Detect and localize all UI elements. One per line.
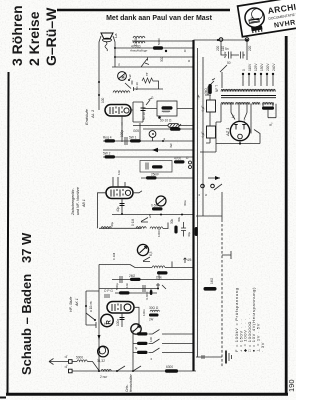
bus node dots bbox=[192, 47, 194, 49]
switch contacts pair bbox=[201, 184, 205, 188]
wire y216 to linkage bbox=[196, 215, 222, 217]
wire y214 row bbox=[112, 214, 193, 216]
svg-text:a: a bbox=[197, 194, 201, 196]
vertical wire x122 bbox=[121, 122, 123, 142]
svg-text:30w: 30w bbox=[183, 200, 187, 206]
svg-text:und NF- Vorröhre: und NF- Vorröhre bbox=[76, 187, 80, 215]
mains terminal 2 bbox=[245, 38, 249, 42]
resistor top mid bbox=[170, 128, 181, 131]
svg-text:AK 1: AK 1 bbox=[75, 298, 79, 307]
svg-text:Met dank aan Paul van der Mast: Met dank aan Paul van der Mast bbox=[106, 15, 212, 22]
svg-text:5000: 5000 bbox=[157, 38, 161, 45]
node dots on speaker wires bbox=[98, 81, 100, 83]
wire row y157 bbox=[103, 156, 193, 158]
mains terminal 1 bbox=[219, 38, 223, 42]
svg-text:100n: 100n bbox=[116, 319, 120, 326]
resistor 5W3 bbox=[105, 155, 116, 158]
antenna coil bbox=[72, 361, 77, 363]
svg-text:50: 50 bbox=[227, 61, 231, 65]
svg-text:240V: 240V bbox=[272, 63, 276, 71]
svg-text:30Ω Ω: 30Ω Ω bbox=[149, 306, 159, 310]
block cap 1 bbox=[207, 100, 216, 112]
heater resistor bbox=[262, 107, 274, 110]
grid resistor box bbox=[157, 101, 177, 116]
wave switch coil bbox=[101, 369, 111, 371]
svg-text:100n: 100n bbox=[142, 309, 146, 316]
svg-text:2 nur: 2 nur bbox=[100, 375, 108, 379]
svg-text:AL 1: AL 1 bbox=[90, 110, 95, 119]
wire row y150 bbox=[103, 149, 193, 151]
archief stamp bbox=[238, 0, 320, 37]
cathode resistor under AK1 bbox=[121, 313, 123, 327]
svg-text:AZ 1: AZ 1 bbox=[225, 128, 230, 137]
svg-text:100: 100 bbox=[149, 337, 153, 342]
svg-text:125V: 125V bbox=[254, 63, 258, 71]
resistor 6300 bottom bbox=[165, 369, 178, 372]
resistor 30k vertical bbox=[174, 226, 177, 234]
resistor 4700 right bbox=[174, 160, 185, 163]
svg-text:100kΩ: 100kΩ bbox=[157, 270, 161, 280]
svg-text:⊣⊢: ⊣⊢ bbox=[197, 94, 201, 100]
switch loop 1 bbox=[141, 218, 148, 223]
outlined resistor on y125.5 bbox=[168, 124, 179, 128]
svg-text:6300: 6300 bbox=[166, 365, 173, 369]
svg-text:4 μF: 4 μF bbox=[201, 132, 205, 138]
svg-text:1M2: 1M2 bbox=[210, 278, 214, 284]
svg-text:40μ: 40μ bbox=[116, 206, 120, 212]
coil 2 on y228 bbox=[136, 227, 146, 229]
HF block left frame bbox=[86, 291, 99, 328]
bus parallel thin 2 bbox=[202, 57, 204, 216]
svg-text:25mF: 25mF bbox=[151, 173, 159, 177]
wire y89 bbox=[133, 88, 163, 90]
svg-text:a: a bbox=[162, 138, 166, 140]
wire speaker right down bbox=[113, 36, 115, 67]
svg-text:G05: G05 bbox=[133, 129, 139, 133]
band row 1 bbox=[133, 330, 193, 335]
bus parallel thin bbox=[197, 48, 199, 357]
misc small labels bbox=[104, 38, 246, 360]
grid cap circle bbox=[152, 138, 154, 142]
svg-text:190: 190 bbox=[287, 379, 296, 392]
svg-text:40μ: 40μ bbox=[110, 222, 114, 227]
svg-text:30k: 30k bbox=[170, 218, 174, 224]
earth bar bbox=[225, 351, 227, 364]
main bus thick bbox=[192, 40, 194, 371]
svg-text:10n: 10n bbox=[117, 170, 121, 175]
svg-text:220: 220 bbox=[248, 45, 252, 51]
mains switch top bbox=[220, 65, 227, 88]
band rows vertical bbox=[132, 330, 134, 371]
border frame left bbox=[8, 72, 9, 395]
coil 100k row y268 bbox=[99, 264, 130, 266]
wire rail y41 bbox=[132, 40, 193, 42]
svg-text:220V: 220V bbox=[266, 63, 270, 71]
resistor 5W2 bbox=[130, 139, 141, 142]
coil 10000 bbox=[150, 227, 163, 229]
output transformer coil top bbox=[131, 36, 145, 48]
wave switch contacts bbox=[117, 366, 141, 371]
svg-text:5000: 5000 bbox=[76, 356, 83, 360]
resistor 2M2 bbox=[130, 278, 141, 281]
voltage taps bbox=[242, 63, 276, 86]
feedback box bbox=[140, 161, 172, 173]
svg-text:5W 1: 5W 1 bbox=[129, 136, 137, 140]
svg-text:fernschalter: fernschalter bbox=[129, 373, 133, 392]
svg-text:4/5: 4/5 bbox=[187, 258, 192, 262]
secondary winding 3 bbox=[252, 102, 260, 104]
arrow mark on x99 bbox=[98, 335, 101, 340]
coil under K bbox=[113, 91, 130, 93]
border frame right bbox=[285, 36, 288, 394]
pot series resistor bbox=[152, 207, 163, 210]
tone switch bbox=[125, 81, 134, 92]
svg-text:110V: 110V bbox=[248, 63, 252, 71]
svg-text:5W 2: 5W 2 bbox=[103, 152, 111, 156]
svg-text:4W: 4W bbox=[169, 143, 173, 148]
sym 4/5 bbox=[184, 258, 187, 263]
svg-text:30k: 30k bbox=[177, 217, 181, 222]
AZ1 surround wires bbox=[216, 113, 260, 144]
svg-text:a: a bbox=[205, 193, 207, 197]
svg-text:k₁: k₁ bbox=[242, 119, 246, 122]
wire to bus from zigzag bbox=[157, 81, 159, 89]
svg-text:31,32: 31,32 bbox=[97, 359, 105, 363]
tube AK1 right lead bbox=[134, 307, 139, 327]
svg-text:a: a bbox=[149, 358, 153, 360]
wire rail y57 bbox=[115, 56, 193, 58]
ballast S circle bbox=[97, 346, 108, 363]
svg-text:50·10: 50·10 bbox=[135, 82, 139, 90]
reg tube R bbox=[101, 314, 113, 326]
tube AB1 left lead bbox=[98, 193, 107, 229]
tube AL1 bbox=[105, 105, 131, 117]
switch loop 2 bbox=[143, 257, 150, 262]
wire speaker left down to AL1 bbox=[99, 36, 101, 110]
svg-text:Endstufe: Endstufe bbox=[84, 108, 89, 125]
svg-text:302: 302 bbox=[160, 56, 164, 62]
rectifier AZ1 bbox=[225, 121, 250, 140]
resistor on y48 rail bbox=[153, 46, 163, 49]
stack resistor A bbox=[146, 176, 157, 179]
antenna terminal A2 bbox=[69, 369, 73, 373]
potentiometer K bbox=[118, 72, 130, 81]
svg-text:NF T: NF T bbox=[215, 85, 219, 92]
box leads bbox=[143, 108, 193, 110]
cathode cap 40u bbox=[121, 199, 123, 215]
wire row y141 bbox=[103, 140, 193, 142]
antenna terminal A1 bbox=[69, 360, 73, 364]
row y288 bbox=[99, 288, 159, 290]
svg-text:2 Kreise: 2 Kreise bbox=[26, 11, 42, 66]
vertical x99 lower bbox=[98, 265, 100, 373]
pot circle with slash bbox=[156, 196, 166, 206]
svg-text:6,3: 6,3 bbox=[149, 251, 153, 256]
resistor 1k under bbox=[157, 271, 168, 274]
secondary winding 2 bbox=[236, 102, 250, 104]
HF block switch bbox=[86, 313, 95, 320]
switch D between rails bbox=[141, 58, 149, 68]
svg-text:1W: 1W bbox=[128, 74, 132, 79]
wire AL1 anode down bbox=[121, 116, 123, 126]
wire rail y48 bbox=[115, 47, 193, 49]
arrow on y150 bbox=[152, 148, 158, 152]
svg-text:100p: 100p bbox=[120, 130, 124, 137]
border frame bottom bbox=[6, 393, 288, 396]
transformer core bbox=[221, 96, 276, 98]
tube AB1 bbox=[106, 187, 133, 199]
svg-text:100: 100 bbox=[101, 97, 105, 103]
smoothing resistor vertical bbox=[208, 84, 211, 94]
svg-text:10000: 10000 bbox=[157, 228, 161, 237]
svg-text:40μ: 40μ bbox=[187, 232, 191, 237]
coil on y228 bbox=[101, 227, 111, 229]
svg-text:Netz: Netz bbox=[223, 51, 227, 58]
svg-text:5n: 5n bbox=[225, 47, 229, 51]
svg-text:2M2: 2M2 bbox=[129, 274, 135, 278]
svg-text:a 10cm: a 10cm bbox=[89, 301, 93, 312]
border frame top bbox=[57, 9, 230, 12]
svg-text:150V: 150V bbox=[260, 63, 264, 71]
vertical wire x140 bbox=[139, 123, 141, 141]
meter A upper bbox=[137, 244, 153, 256]
fuse sym bbox=[205, 79, 215, 96]
node dots y141 bbox=[139, 140, 141, 142]
caps on y288 bbox=[143, 285, 145, 292]
top wire to transformer bbox=[194, 39, 248, 41]
svg-text:Anschlußvgn: Anschlußvgn bbox=[129, 49, 148, 53]
wire row y129 bbox=[143, 128, 193, 130]
capacitor right of 30k bbox=[181, 222, 186, 237]
secondary winding 4 bbox=[263, 102, 274, 104]
wire rail y67 bbox=[112, 66, 193, 68]
loudspeaker La bbox=[101, 33, 118, 51]
edge mark bottom-left bbox=[0, 397, 6, 399]
secondary winding 1 bbox=[221, 102, 234, 104]
svg-text:w5: w5 bbox=[148, 214, 152, 218]
stamp tube icon bbox=[244, 7, 266, 29]
coupling cap bracket bbox=[131, 102, 143, 122]
node dots y214 bbox=[181, 214, 183, 216]
band row 2 bbox=[133, 339, 193, 344]
svg-text:HF- Stufe: HF- Stufe bbox=[69, 297, 73, 312]
svg-text:· 3V: · 3V bbox=[260, 342, 265, 352]
capacitor in box bbox=[146, 163, 148, 170]
antenna arrow bbox=[49, 359, 68, 365]
earth lead bottom bbox=[196, 356, 222, 358]
resistor Reg4 bbox=[105, 139, 116, 142]
svg-text:R: R bbox=[107, 320, 113, 325]
wire y228 left bbox=[99, 227, 141, 229]
resistor 1M2 bbox=[204, 287, 217, 291]
interference caps bbox=[221, 41, 247, 60]
antenna wire 2 bbox=[72, 370, 196, 372]
svg-text:0·1M: 0·1M bbox=[112, 253, 116, 260]
resistor in box bbox=[152, 165, 163, 168]
linkage tick bbox=[222, 251, 231, 259]
svg-text:50·10 Ω: 50·10 Ω bbox=[160, 119, 172, 123]
band row 3 bbox=[133, 348, 193, 353]
svg-text:4700: 4700 bbox=[174, 157, 181, 161]
arrow G mark bbox=[146, 99, 152, 106]
tube AB1 right lead bbox=[133, 191, 142, 193]
electrolytic 40u bus bbox=[195, 227, 198, 236]
wire row y125.5 bbox=[133, 125, 193, 127]
svg-text:0·5M: 0·5M bbox=[151, 204, 159, 208]
svg-text:10n: 10n bbox=[125, 283, 129, 288]
svg-text:3·40C: 3·40C bbox=[145, 291, 149, 300]
caps above AK1 bbox=[104, 293, 157, 297]
svg-text:50·10: 50·10 bbox=[142, 112, 146, 120]
svg-text:4 μF: 4 μF bbox=[201, 106, 205, 112]
svg-text:A₁: A₁ bbox=[64, 355, 68, 358]
row y279 caps bbox=[112, 276, 193, 283]
heater arrow bbox=[208, 177, 220, 179]
svg-text:AB 1: AB 1 bbox=[82, 199, 86, 208]
svg-text:G–Rü–W: G–Rü–W bbox=[43, 7, 59, 66]
svg-text:C·F·G: C·F·G bbox=[104, 289, 113, 293]
linkage dashed bbox=[221, 192, 223, 222]
winding drops bbox=[221, 104, 276, 134]
small caps x185 bbox=[189, 161, 192, 164]
svg-text:3kΩ: 3kΩ bbox=[204, 88, 208, 94]
small parts right rows bbox=[157, 288, 159, 290]
svg-text:Reg 4: Reg 4 bbox=[103, 136, 112, 140]
resistor zigzag bbox=[142, 78, 157, 83]
tube AK1 bbox=[107, 302, 134, 314]
meter A lower bbox=[131, 324, 141, 334]
antenna diag wire bbox=[88, 362, 100, 371]
svg-text:220: 220 bbox=[216, 45, 220, 51]
tube AB1 top leads bbox=[113, 177, 125, 187]
svg-text:TT: TT bbox=[145, 72, 149, 76]
svg-text:Zwischengeröhr-: Zwischengeröhr- bbox=[71, 187, 75, 216]
svg-text:500p: 500p bbox=[115, 283, 119, 290]
svg-text:3 Röhren: 3 Röhren bbox=[9, 5, 25, 66]
block cap 2 bbox=[207, 126, 216, 138]
svg-text:0: 0 bbox=[242, 69, 246, 71]
svg-text:m: m bbox=[117, 63, 121, 66]
capacitor 100p bbox=[125, 137, 127, 145]
svg-text:0·1M: 0·1M bbox=[131, 218, 135, 226]
svg-text:Schaub – Baden 37 W: Schaub – Baden 37 W bbox=[19, 232, 34, 375]
